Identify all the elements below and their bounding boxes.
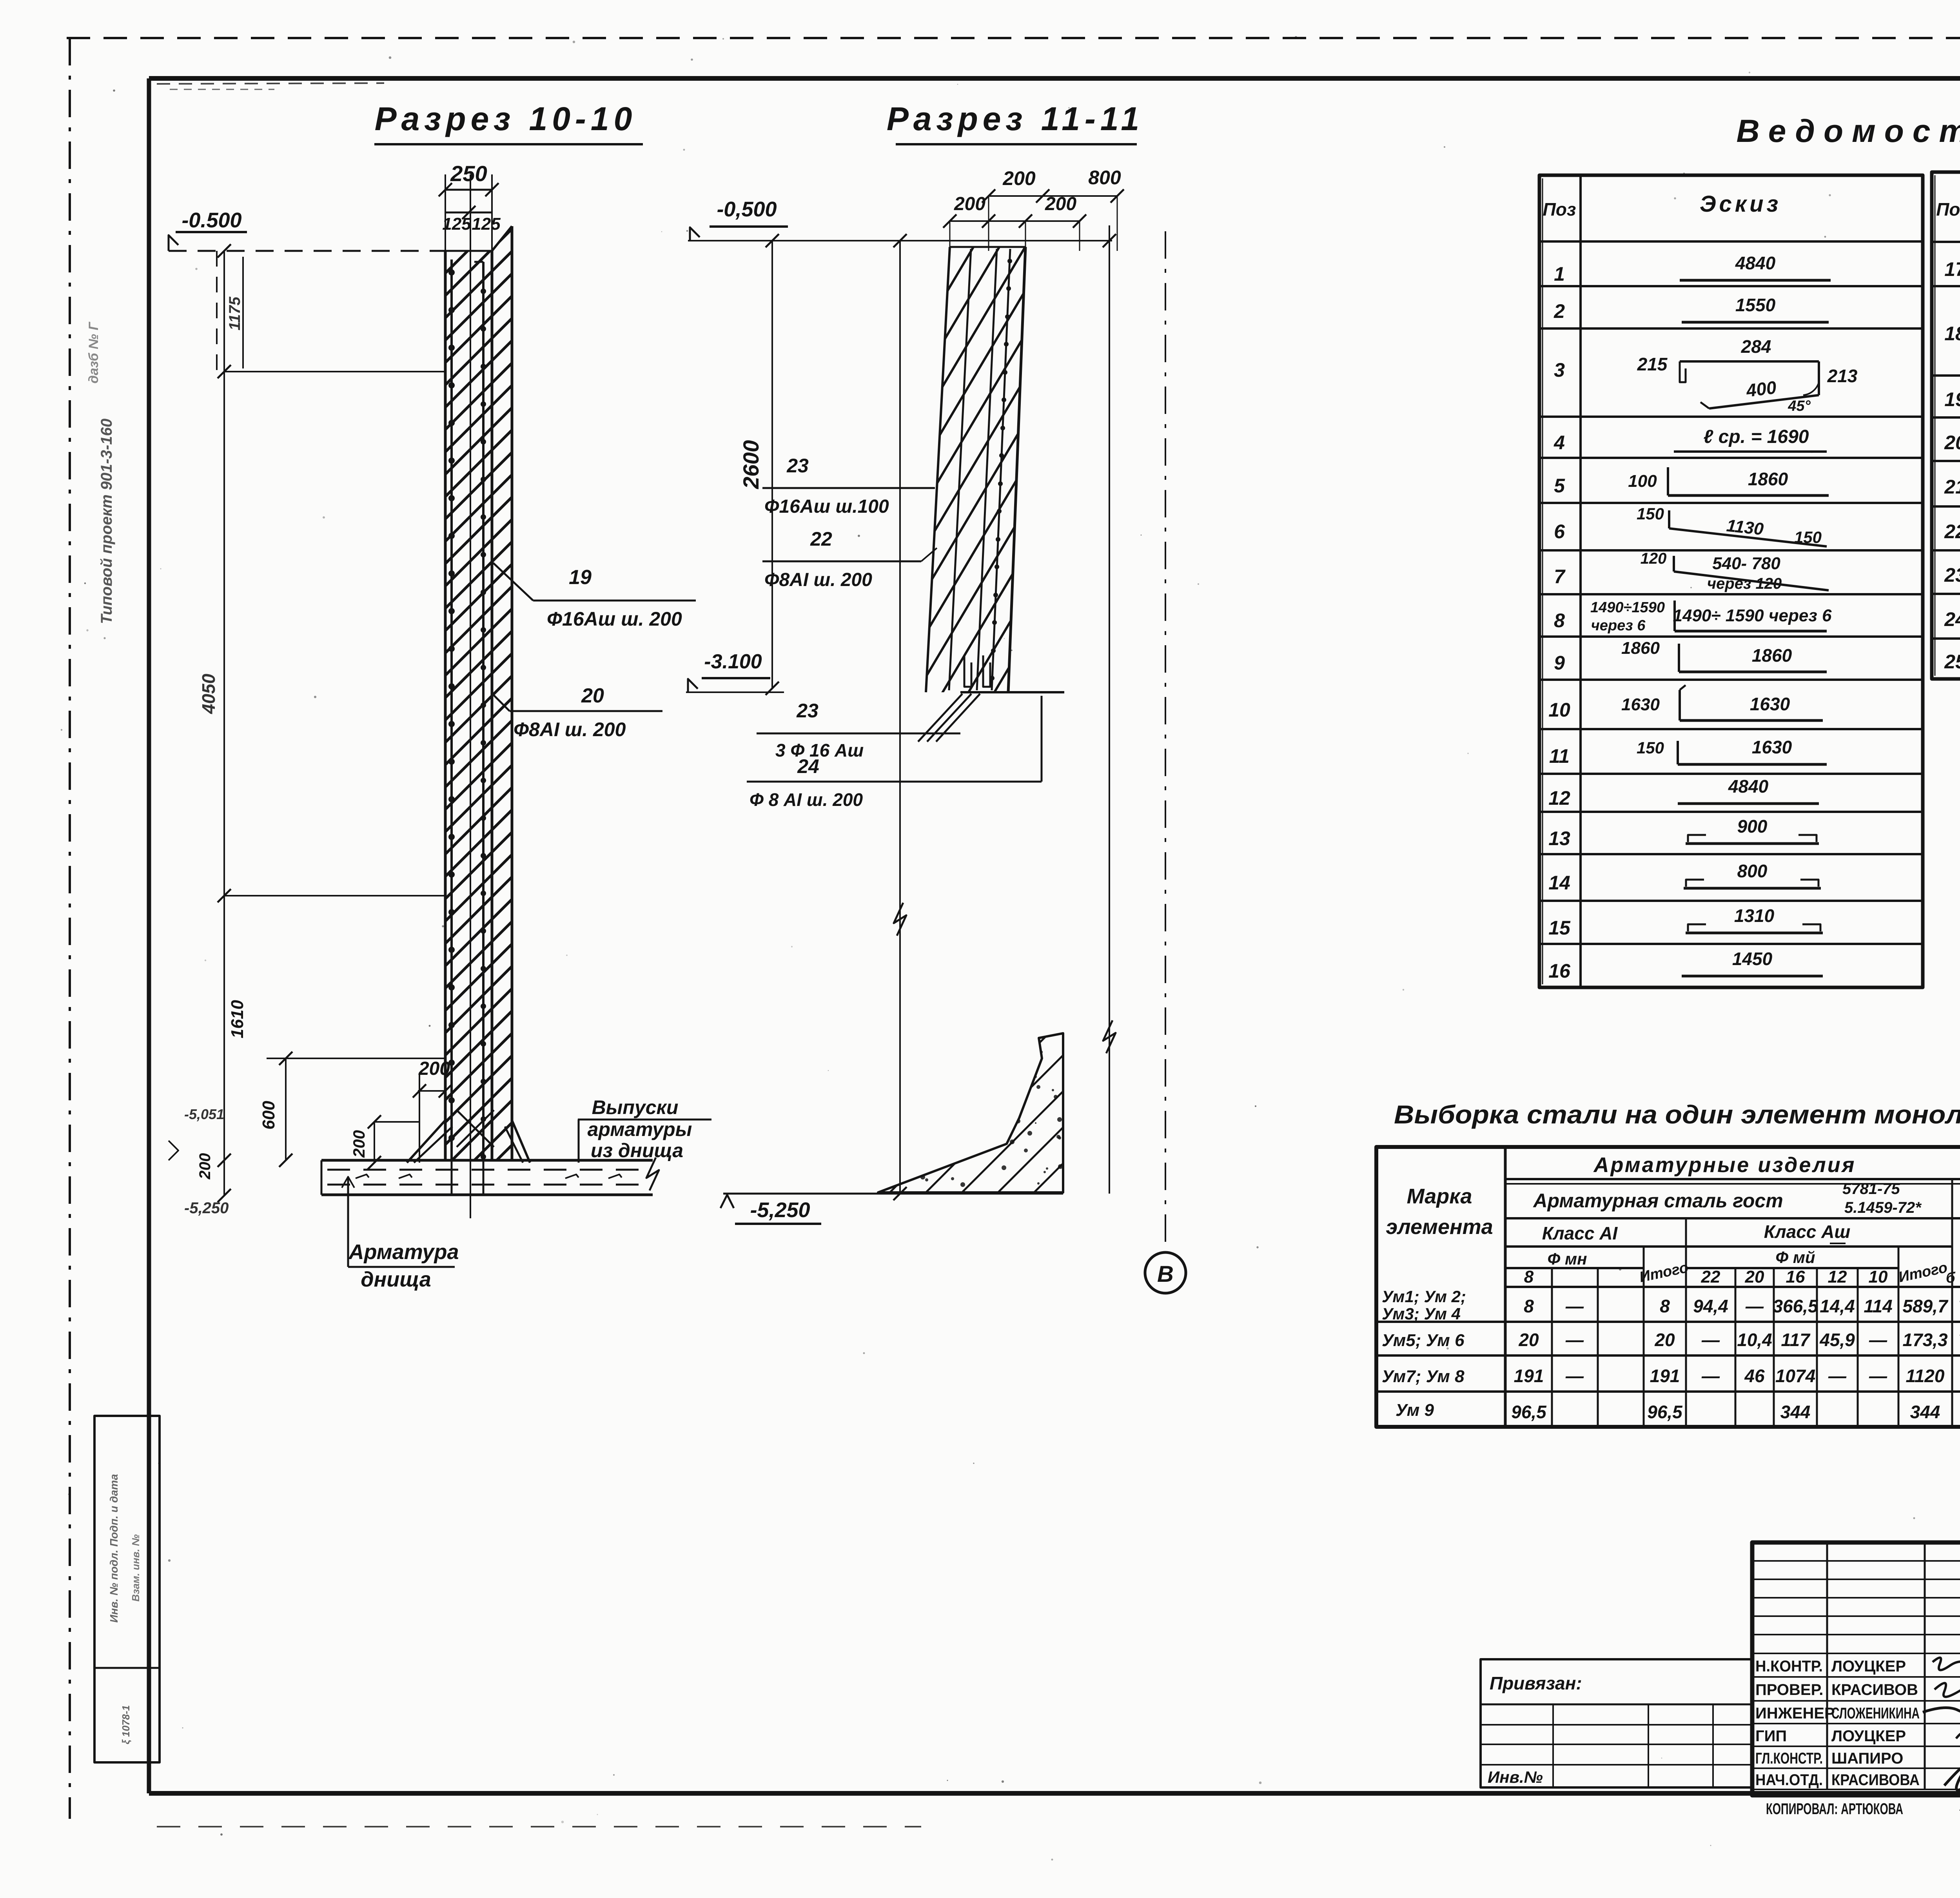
svg-text:191: 191 [1650, 1366, 1680, 1386]
svg-text:3: 3 [1554, 359, 1565, 381]
svg-text:ПРОВЕР.: ПРОВЕР. [1755, 1681, 1823, 1698]
svg-text:Класс Аш: Класс Аш [1764, 1221, 1851, 1242]
svg-text:через 120: через 120 [1707, 575, 1782, 592]
svg-text:Ум5; Ум 6: Ум5; Ум 6 [1382, 1331, 1465, 1350]
svg-text:6: 6 [1554, 521, 1565, 543]
svg-text:213: 213 [1827, 366, 1858, 386]
svg-text:10,4: 10,4 [1737, 1330, 1772, 1350]
svg-text:Ведомость стержней: Ведомость стержней [1737, 113, 1960, 149]
svg-text:23: 23 [1944, 564, 1960, 586]
svg-text:18: 18 [1944, 323, 1960, 345]
svg-text:Арматурная сталь гост: Арматурная сталь гост [1532, 1190, 1783, 1212]
svg-text:Ф 8 АІ ш. 200: Ф 8 АІ ш. 200 [750, 789, 863, 810]
svg-text:ЛОУЦКЕР: ЛОУЦКЕР [1831, 1658, 1906, 1675]
svg-text:16: 16 [1786, 1267, 1805, 1287]
svg-text:24: 24 [1944, 608, 1960, 630]
svg-text:14,4: 14,4 [1820, 1296, 1855, 1316]
svg-text:—: — [1701, 1366, 1720, 1386]
svg-text:СЛОЖЕНИКИНА: СЛОЖЕНИКИНА [1831, 1705, 1920, 1722]
svg-text:1630: 1630 [1750, 694, 1790, 714]
svg-text:В: В [1157, 1261, 1174, 1287]
svg-text:21: 21 [1944, 476, 1960, 498]
svg-text:125: 125 [442, 214, 471, 234]
svg-text:Ф16Аш ш. 200: Ф16Аш ш. 200 [547, 608, 682, 630]
svg-text:1550: 1550 [1735, 295, 1776, 315]
svg-text:125: 125 [472, 214, 501, 234]
svg-text:Ум1; Ум 2;: Ум1; Ум 2; [1382, 1287, 1466, 1306]
svg-text:5781-75: 5781-75 [1842, 1180, 1900, 1198]
svg-text:94,4: 94,4 [1693, 1296, 1728, 1316]
svg-text:23: 23 [796, 700, 818, 722]
svg-text:днища: днища [361, 1268, 431, 1291]
svg-text:23: 23 [786, 455, 809, 477]
svg-text:540- 780: 540- 780 [1712, 554, 1780, 573]
svg-text:8: 8 [1524, 1267, 1534, 1287]
svg-text:366,5: 366,5 [1773, 1296, 1818, 1316]
svg-text:200: 200 [350, 1130, 368, 1158]
svg-text:344: 344 [1780, 1402, 1811, 1422]
svg-text:589,7: 589,7 [1902, 1296, 1949, 1316]
svg-text:8: 8 [1524, 1296, 1534, 1316]
svg-text:ШАПИРО: ШАПИРО [1831, 1750, 1903, 1767]
svg-text:Инв. № подл. Подп. и дата: Инв. № подл. Подп. и дата [108, 1474, 120, 1622]
svg-text:96,5: 96,5 [1511, 1402, 1547, 1422]
svg-text:800: 800 [1737, 861, 1768, 881]
svg-text:150: 150 [1794, 528, 1822, 546]
svg-text:через 6: через 6 [1591, 617, 1646, 634]
svg-text:—: — [1565, 1296, 1584, 1316]
svg-text:284: 284 [1741, 336, 1771, 357]
svg-text:7,6: 7,6 [1958, 1296, 1960, 1316]
svg-text:14: 14 [1548, 872, 1570, 894]
svg-text:11: 11 [1549, 745, 1570, 767]
svg-text:2: 2 [1553, 300, 1565, 322]
svg-text:117: 117 [1781, 1330, 1811, 1350]
svg-text:46: 46 [1744, 1366, 1765, 1386]
svg-text:Типовой проект 901-3-160: Типовой проект 901-3-160 [98, 419, 115, 624]
svg-text:Инв.№: Инв.№ [1488, 1768, 1543, 1786]
svg-text:Взам. инв. №: Взам. инв. № [130, 1534, 142, 1602]
svg-text:Эскиз: Эскиз [1700, 191, 1781, 217]
svg-text:12: 12 [1828, 1267, 1847, 1287]
svg-text:200: 200 [418, 1058, 450, 1079]
svg-text:45°: 45° [1788, 398, 1811, 414]
svg-text:—: — [1701, 1330, 1720, 1350]
svg-text:24: 24 [797, 755, 819, 777]
svg-text:150: 150 [1637, 504, 1664, 523]
svg-text:344: 344 [1910, 1402, 1940, 1422]
svg-text:б = 8: б = 8 [1946, 1270, 1960, 1286]
svg-text:-0,500: -0,500 [717, 198, 777, 221]
svg-text:25: 25 [1944, 651, 1960, 673]
svg-text:20: 20 [1654, 1330, 1675, 1350]
svg-text:—: — [1565, 1330, 1584, 1350]
svg-text:—: — [1565, 1366, 1584, 1386]
svg-text:-0.500: -0.500 [181, 209, 241, 232]
svg-text:20: 20 [1518, 1330, 1539, 1350]
svg-text:—: — [1869, 1366, 1887, 1386]
svg-text:—: — [1745, 1296, 1764, 1316]
svg-text:ξ 1078-1: ξ 1078-1 [120, 1705, 132, 1744]
svg-text:Привязан:: Привязан: [1490, 1673, 1582, 1693]
svg-text:1860: 1860 [1748, 469, 1788, 489]
svg-text:22: 22 [1701, 1267, 1720, 1287]
svg-text:Арматурные изделия: Арматурные изделия [1593, 1153, 1856, 1177]
svg-text:400: 400 [1745, 377, 1778, 401]
svg-text:200: 200 [954, 194, 985, 214]
svg-text:из днища: из днища [591, 1140, 683, 1161]
svg-text:ГИП: ГИП [1755, 1727, 1787, 1745]
svg-text:1860: 1860 [1752, 645, 1792, 666]
svg-text:ЛОУЦКЕР: ЛОУЦКЕР [1831, 1727, 1906, 1745]
svg-text:22: 22 [810, 528, 832, 550]
svg-text:Разрез 11-11: Разрез 11-11 [887, 100, 1144, 137]
svg-text:2600: 2600 [739, 440, 763, 490]
svg-text:—: — [1869, 1330, 1887, 1350]
svg-text:45,9: 45,9 [1819, 1330, 1855, 1350]
svg-text:Ум 9: Ум 9 [1396, 1401, 1434, 1420]
svg-text:1630: 1630 [1752, 737, 1792, 757]
svg-text:9: 9 [1554, 652, 1565, 674]
svg-text:Арматура: Арматура [348, 1240, 459, 1264]
svg-text:120: 120 [1641, 550, 1667, 567]
svg-text:Марка: Марка [1407, 1185, 1472, 1208]
svg-text:16: 16 [1548, 960, 1571, 982]
svg-text:арматуры: арматуры [588, 1118, 692, 1140]
svg-text:4840: 4840 [1735, 253, 1776, 273]
svg-text:3 Ф 16 Аш: 3 Ф 16 Аш [775, 740, 864, 760]
svg-text:8: 8 [1554, 610, 1565, 631]
svg-text:Ф мй: Ф мй [1775, 1248, 1815, 1267]
svg-text:Выпуски: Выпуски [592, 1096, 679, 1118]
svg-text:8: 8 [1660, 1296, 1670, 1316]
svg-text:96,5: 96,5 [1647, 1402, 1683, 1422]
svg-text:900: 900 [1737, 816, 1768, 836]
svg-text:7,6: 7,6 [1958, 1330, 1960, 1350]
svg-text:-3.100: -3.100 [704, 650, 762, 673]
svg-text:12: 12 [1548, 787, 1570, 809]
svg-text:10: 10 [1869, 1267, 1888, 1287]
svg-text:4: 4 [1553, 432, 1565, 454]
svg-text:13: 13 [1548, 827, 1570, 849]
svg-text:600: 600 [259, 1101, 278, 1130]
svg-text:19: 19 [1944, 388, 1960, 410]
svg-text:КОПИРОВАЛ: АРТЮКОВА: КОПИРОВАЛ: АРТЮКОВА [1766, 1800, 1903, 1818]
svg-text:1450: 1450 [1732, 949, 1773, 969]
svg-text:250: 250 [450, 161, 487, 186]
svg-text:Разрез 10-10: Разрез 10-10 [375, 100, 637, 137]
svg-text:КРАСИВОВА: КРАСИВОВА [1831, 1771, 1920, 1789]
svg-text:1120: 1120 [1906, 1366, 1945, 1386]
svg-text:4050: 4050 [198, 673, 219, 714]
svg-text:элемента: элемента [1386, 1215, 1493, 1239]
svg-text:НАЧ.ОТД.: НАЧ.ОТД. [1755, 1771, 1823, 1789]
svg-text:173,3: 173,3 [1902, 1330, 1948, 1350]
svg-text:15: 15 [1548, 917, 1571, 939]
svg-text:20: 20 [581, 684, 604, 707]
svg-text:1610: 1610 [228, 1000, 247, 1038]
svg-text:-5,051: -5,051 [184, 1106, 224, 1122]
svg-text:1130: 1130 [1726, 516, 1765, 539]
svg-text:ГЛ.КОНСТР.: ГЛ.КОНСТР. [1755, 1750, 1823, 1767]
svg-text:200: 200 [1002, 167, 1036, 189]
svg-text:Ф8АІ ш. 200: Ф8АІ ш. 200 [514, 719, 626, 740]
svg-text:5.1459-72*: 5.1459-72* [1844, 1199, 1922, 1216]
svg-text:-5,250: -5,250 [184, 1199, 229, 1217]
svg-text:Класс АІ: Класс АІ [1542, 1223, 1618, 1243]
svg-text:Поз: Поз [1543, 199, 1576, 220]
svg-text:Ф мн: Ф мн [1548, 1250, 1587, 1268]
svg-text:5: 5 [1554, 475, 1565, 497]
svg-text:20: 20 [1944, 432, 1960, 454]
svg-text:200: 200 [196, 1153, 214, 1180]
svg-text:1490÷ 1590 через 6: 1490÷ 1590 через 6 [1673, 606, 1832, 625]
svg-text:КРАСИВОВ: КРАСИВОВ [1831, 1681, 1918, 1698]
svg-text:17: 17 [1944, 258, 1960, 280]
svg-text:215: 215 [1637, 354, 1668, 374]
svg-text:200: 200 [1045, 194, 1076, 214]
svg-text:150: 150 [1637, 739, 1664, 757]
svg-text:19: 19 [569, 566, 592, 589]
svg-text:Н.КОНТР.: Н.КОНТР. [1755, 1658, 1823, 1675]
svg-text:1074: 1074 [1775, 1366, 1815, 1386]
svg-text:4840: 4840 [1728, 776, 1769, 797]
svg-text:Выборка стали на один элемент: Выборка стали на один элемент монолитных… [1394, 1100, 1960, 1129]
svg-text:20: 20 [1745, 1267, 1764, 1287]
svg-text:Ф8АІ ш. 200: Ф8АІ ш. 200 [764, 570, 872, 590]
svg-text:191: 191 [1514, 1366, 1544, 1386]
svg-text:7: 7 [1554, 566, 1566, 588]
svg-text:1175: 1175 [226, 296, 243, 330]
svg-text:10: 10 [1548, 699, 1570, 721]
svg-text:Поз.: Поз. [1936, 199, 1960, 220]
svg-text:1310: 1310 [1734, 905, 1775, 926]
svg-text:100: 100 [1628, 472, 1657, 491]
svg-text:Ум7; Ум 8: Ум7; Ум 8 [1382, 1367, 1465, 1386]
svg-text:Ф16Аш ш.100: Ф16Аш ш.100 [764, 496, 889, 517]
svg-text:1490÷1590: 1490÷1590 [1590, 599, 1665, 616]
svg-text:1860: 1860 [1621, 639, 1660, 658]
svg-text:114: 114 [1864, 1296, 1892, 1316]
svg-text:Ум3; Ум 4: Ум3; Ум 4 [1382, 1305, 1461, 1323]
svg-text:ИНЖЕНЕР: ИНЖЕНЕР [1755, 1705, 1835, 1722]
svg-text:22: 22 [1944, 521, 1960, 543]
svg-text:1630: 1630 [1621, 695, 1660, 714]
svg-text:дазб № Г: дазб № Г [86, 321, 101, 384]
svg-text:1: 1 [1554, 263, 1565, 285]
svg-text:-5,250: -5,250 [750, 1198, 810, 1222]
svg-text:—: — [1828, 1366, 1847, 1386]
svg-text:800: 800 [1088, 167, 1121, 189]
svg-text:ℓ ср. = 1690: ℓ ср. = 1690 [1704, 426, 1809, 447]
